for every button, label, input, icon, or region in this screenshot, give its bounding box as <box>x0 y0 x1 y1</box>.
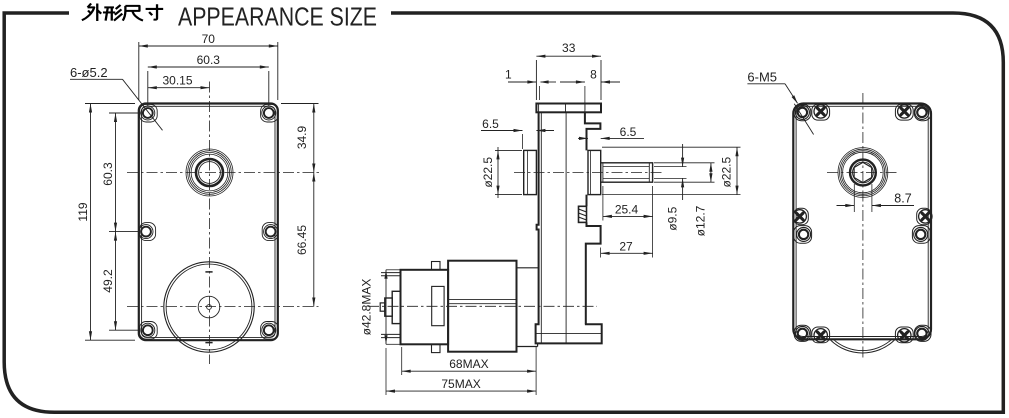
svg-text:ø42.8MAX: ø42.8MAX <box>359 279 373 336</box>
svg-text:34.9: 34.9 <box>295 125 309 149</box>
svg-text:6-M5: 6-M5 <box>747 70 777 85</box>
svg-text:ø12.7: ø12.7 <box>694 205 708 236</box>
svg-text:8: 8 <box>590 68 597 82</box>
svg-text:119: 119 <box>76 202 90 221</box>
svg-text:60.3: 60.3 <box>197 53 221 67</box>
svg-text:66.45: 66.45 <box>295 225 309 255</box>
svg-text:33: 33 <box>562 41 576 55</box>
svg-text:1: 1 <box>505 68 512 82</box>
svg-text:6.5: 6.5 <box>620 125 637 139</box>
svg-text:6-ø5.2: 6-ø5.2 <box>70 65 108 80</box>
svg-text:8.7: 8.7 <box>894 191 911 205</box>
svg-text:ø9.5: ø9.5 <box>666 206 680 230</box>
svg-text:49.2: 49.2 <box>101 269 115 293</box>
svg-text:27: 27 <box>619 239 633 253</box>
svg-text:70: 70 <box>202 32 216 46</box>
svg-text:30.15: 30.15 <box>162 74 192 88</box>
svg-text:6.5: 6.5 <box>482 117 499 131</box>
svg-text:25.4: 25.4 <box>615 203 639 217</box>
svg-text:60.3: 60.3 <box>101 162 115 186</box>
svg-text:ø22.5: ø22.5 <box>720 157 734 188</box>
svg-text:68MAX: 68MAX <box>449 357 488 371</box>
svg-text:75MAX: 75MAX <box>441 377 480 391</box>
svg-text:ø22.5: ø22.5 <box>481 157 495 188</box>
svg-text:APPEARANCE SIZE: APPEARANCE SIZE <box>178 4 377 32</box>
